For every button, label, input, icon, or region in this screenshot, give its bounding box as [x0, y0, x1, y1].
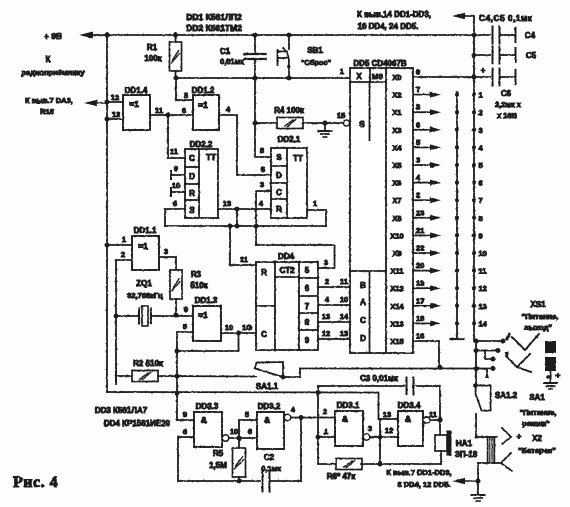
junction out10 [236, 331, 241, 336]
resistor R2 [115, 369, 117, 384]
svg-text:=1: =1 [198, 310, 208, 320]
wire DD3.4 out pin11 [423, 417, 430, 424]
junction bus DD1.1 pin1 [105, 243, 110, 248]
ground XS1 [544, 382, 557, 384]
svg-text:X12: X12 [390, 284, 403, 293]
svg-text:XS1: XS1 [530, 300, 546, 309]
svg-text:DD1.2: DD1.2 [192, 86, 215, 95]
svg-text:1: 1 [122, 235, 126, 244]
svg-text:6: 6 [173, 199, 177, 208]
junction SB1 top [287, 33, 292, 38]
contact 6 [472, 181, 476, 185]
junction DD1.4out/DD2.2 pin11 [166, 113, 171, 118]
contact 11 [472, 269, 476, 273]
svg-text:DD3.2: DD3.2 [258, 402, 281, 411]
wire DD3.3 out pin10 [222, 435, 229, 442]
svg-text:SB1: SB1 [307, 46, 323, 55]
svg-text:R: R [276, 205, 282, 214]
svg-text:9: 9 [416, 68, 420, 77]
svg-text:9: 9 [184, 305, 188, 314]
svg-text:S: S [276, 153, 282, 162]
arrow pin14 supply [459, 15, 472, 17]
wire DD3.3 pin9 [177, 419, 194, 421]
svg-text:1: 1 [313, 199, 317, 208]
ground at R4 [324, 123, 326, 131]
ground bottom [477, 481, 479, 494]
svg-text:К выв.7 DA3,: К выв.7 DA3, [25, 96, 73, 105]
junction R1 top [173, 33, 178, 38]
svg-text:"Батарея": "Батарея" [518, 446, 556, 455]
wire bottom rail R5-C2 [178, 480, 260, 482]
svg-text:х 16В: х 16В [497, 111, 518, 120]
wire DD4 pin10 C input [255, 332, 257, 334]
wire DD1.4 pin13 [107, 118, 123, 120]
capacitor C3 [406, 378, 408, 395]
svg-text:13: 13 [112, 110, 120, 119]
op-gate DD1.2 [193, 95, 219, 130]
svg-text:R4 100к: R4 100к [274, 106, 305, 115]
wire to DD3.2 pin5 [239, 420, 257, 438]
svg-text:11: 11 [170, 147, 178, 156]
bus line B contacts common [456, 92, 458, 338]
junction bus pin12 [105, 100, 110, 105]
svg-text:13: 13 [322, 312, 330, 321]
connector XS1 body [545, 341, 556, 353]
svg-text:12: 12 [385, 426, 393, 435]
svg-text:16: 16 [416, 332, 424, 341]
wire to DD1.2 pin5 [176, 78, 193, 100]
junction L1 end [491, 366, 496, 371]
svg-text:6: 6 [416, 120, 420, 129]
contact 13 [472, 304, 476, 308]
junction out10/R5 [237, 436, 242, 441]
svg-text:CT2: CT2 [279, 266, 295, 275]
svg-text:2: 2 [323, 407, 327, 416]
svg-text:0,01мк: 0,01мк [220, 57, 244, 66]
wire C3 branch [318, 385, 404, 387]
svg-text:выход": выход" [524, 323, 552, 332]
junction SA1.1 pivot [280, 375, 285, 380]
svg-text:23: 23 [416, 208, 424, 217]
wire SA1.2 to X2 [476, 414, 497, 437]
junction rail right [472, 33, 477, 38]
arrow to pins 7 [459, 480, 478, 482]
svg-text:К выв.7 DD1-DD3,: К выв.7 DD1-DD3, [386, 468, 451, 477]
resistor R4 [255, 122, 277, 124]
plug pin X2 bottom [478, 462, 500, 464]
resistor R5 [238, 438, 240, 448]
junction R4 right [323, 121, 328, 126]
svg-text:"Питание,: "Питание, [522, 312, 559, 321]
svg-text:0,1мк: 0,1мк [261, 464, 281, 473]
junction R1 bottom [174, 76, 179, 81]
contact 12 [472, 286, 476, 290]
svg-text:ZQ1: ZQ1 [136, 279, 152, 288]
svg-text:8: 8 [416, 103, 420, 112]
svg-text:14: 14 [340, 312, 349, 321]
junction C1 top [253, 33, 258, 38]
svg-text:X6: X6 [392, 179, 401, 188]
svg-text:К: К [46, 55, 51, 64]
wire L2 from bus [107, 392, 398, 419]
wire feedback down [177, 333, 239, 351]
jack contact 1 [512, 334, 539, 350]
svg-text:19: 19 [416, 279, 424, 288]
svg-text:X3: X3 [392, 126, 401, 135]
svg-text:S: S [359, 119, 365, 129]
wire W1 bottom of flip-flops [165, 225, 326, 227]
svg-text:20: 20 [416, 261, 424, 270]
svg-text:SA1.1: SA1.1 [256, 382, 279, 391]
wire DD3.2 out pin4 [284, 414, 291, 421]
junction R5 bottom [237, 479, 242, 484]
switch SA1.2 lever [476, 386, 491, 411]
contact 3 [472, 128, 476, 132]
bus line C numbered [473, 35, 475, 341]
svg-text:DD2.1: DD2.1 [278, 135, 301, 144]
svg-text:радиоприёмнику: радиоприёмнику [21, 68, 85, 77]
counter DD4 CT2 [256, 262, 318, 350]
svg-text:8: 8 [260, 146, 264, 155]
bus line B end bar [451, 338, 464, 340]
wire DD4 outC pin13 to DD5 C pin14 [318, 321, 350, 323]
junction crystal right [174, 313, 179, 318]
svg-text:7: 7 [479, 196, 483, 205]
svg-text:X10: X10 [390, 231, 403, 240]
svg-text:8: 8 [305, 318, 310, 327]
wire DD4 out5 to W2 [317, 267, 319, 269]
svg-text:32,768кГц: 32,768кГц [127, 291, 163, 300]
svg-text:DD3.4: DD3.4 [398, 401, 421, 410]
op-gate DD1.3 [193, 306, 221, 341]
wire DD1.1 pin1 [107, 244, 132, 246]
op-gate DD1.4 [123, 95, 150, 130]
svg-text:=1: =1 [198, 100, 208, 110]
svg-text:14: 14 [479, 319, 488, 328]
svg-text:C: C [189, 154, 195, 163]
resistor R1 [175, 35, 177, 42]
wire X15 pin16 to SA1.1 line [413, 341, 439, 368]
svg-text:D: D [360, 334, 366, 343]
svg-text:12: 12 [322, 329, 330, 338]
svg-text:22: 22 [416, 244, 424, 253]
svg-text:X: X [356, 72, 362, 81]
svg-text:7: 7 [416, 85, 420, 94]
nand DD3.3 [194, 412, 222, 447]
stub DD2.2 pin9 [171, 174, 185, 176]
junction pin1 [316, 435, 321, 440]
svg-text:X5: X5 [392, 161, 401, 170]
svg-text:3: 3 [416, 156, 420, 165]
wire DD2.2 out pin13 [218, 208, 271, 210]
svg-text:11: 11 [240, 255, 248, 264]
wire DD4 outA pin4 to DD5 A pin10 [318, 304, 350, 306]
svg-text:DD3.1: DD3.1 [337, 401, 360, 410]
svg-text:C4: C4 [525, 31, 536, 40]
contact 10 [472, 251, 476, 255]
svg-text:3: 3 [260, 180, 264, 189]
svg-text:X2: X2 [392, 91, 401, 100]
junction out13 [235, 207, 240, 212]
contact 4 [472, 145, 476, 149]
svg-text:5: 5 [184, 91, 188, 100]
svg-text:7: 7 [305, 302, 310, 311]
op-gate DD1.1 [132, 236, 159, 270]
wire DD2.1 pin8 S from C1 [255, 156, 271, 158]
svg-text:DD1.3: DD1.3 [195, 296, 218, 305]
svg-text:R: R [261, 268, 267, 277]
svg-text:R1: R1 [147, 43, 158, 52]
svg-text:17: 17 [416, 296, 424, 305]
svg-text:12: 12 [479, 284, 487, 293]
svg-text:1: 1 [324, 427, 328, 436]
crystal ZQ1 [116, 315, 138, 317]
wire DD1.2 out pin4 [219, 115, 271, 175]
contact 2 [472, 110, 476, 114]
arrow to DA3/R16 [91, 102, 107, 104]
resistor R6 [336, 459, 362, 470]
junction SA1.2/L1 [474, 366, 479, 371]
svg-text:&: & [342, 414, 348, 424]
svg-text:DD3 К561ЛА7: DD3 К561ЛА7 [95, 406, 148, 415]
capacitor C2 [262, 471, 264, 492]
switch SA1.1 lever [255, 362, 283, 377]
svg-text:C5: C5 [526, 51, 537, 60]
wire L1 SA1.1 common [300, 368, 493, 370]
wire C3 right to out11 node [416, 386, 440, 436]
plug arrow row1 [505, 332, 511, 341]
svg-text:DD3.3: DD3.3 [196, 402, 219, 411]
flip-flop DD2.2 [185, 149, 218, 218]
wire DD1.1 out pin3 to R3 [159, 257, 176, 270]
svg-text:ЗП-18: ЗП-18 [455, 450, 478, 459]
svg-text:R6* 47к: R6* 47к [327, 472, 356, 481]
capacitor C6 electrolytic [474, 76, 490, 78]
wire SB1 row y78 [176, 77, 351, 79]
junction SB1 bottom [287, 76, 292, 81]
junction bus/rail [105, 33, 110, 38]
svg-text:C4,C5 0,1мк: C4,C5 0,1мк [479, 13, 533, 23]
svg-text:X15: X15 [390, 337, 403, 346]
svg-text:6: 6 [305, 284, 310, 293]
svg-text:X2: X2 [532, 434, 542, 443]
svg-text:9: 9 [174, 164, 178, 173]
svg-text:DD5 CD4067B: DD5 CD4067B [353, 59, 407, 68]
plug arrow row2 [505, 352, 510, 359]
svg-text:15: 15 [337, 111, 345, 120]
svg-text:+: + [517, 432, 522, 441]
wire SA1.2 column [475, 341, 477, 386]
svg-text:5: 5 [479, 161, 483, 170]
svg-text:11: 11 [429, 410, 437, 419]
wire DD2.2 pin6 S [165, 209, 185, 226]
svg-text:НА1: НА1 [456, 439, 473, 448]
buzzer HA1 [439, 435, 441, 436]
svg-text:3: 3 [368, 424, 372, 433]
svg-text:13: 13 [383, 410, 391, 419]
svg-text:D: D [276, 171, 282, 180]
wire DD3.4 vertical node [379, 419, 381, 464]
wire DD2.1 pin3 C [256, 191, 271, 245]
svg-text:11: 11 [479, 267, 487, 276]
svg-text:=1: =1 [129, 99, 139, 109]
wire W2 to DD4 pin3 [256, 245, 335, 268]
wire X2 to ground node [477, 463, 479, 481]
capacitor C4 [474, 34, 490, 36]
contact 5 [472, 163, 476, 167]
svg-text:1: 1 [340, 67, 344, 76]
svg-text:3: 3 [324, 258, 328, 267]
junction L1/X15 [438, 365, 443, 370]
svg-text:11: 11 [155, 106, 163, 115]
svg-text:X7: X7 [392, 196, 401, 205]
wire SA1.1 pivot to L1 [283, 369, 300, 378]
svg-text:11: 11 [340, 277, 348, 286]
arrow to +9V [79, 32, 93, 39]
svg-text:6: 6 [248, 427, 252, 436]
junction W1 R [228, 224, 233, 229]
svg-text:D: D [189, 172, 195, 181]
svg-text:10: 10 [225, 323, 233, 332]
junction out4 down [299, 415, 304, 420]
svg-text:C: C [261, 330, 267, 339]
junction feedback [175, 349, 180, 354]
wire DD1.3 out pin10 [221, 332, 256, 334]
wire DD3.1 out pin3 [363, 434, 370, 441]
svg-text:13: 13 [479, 302, 487, 311]
flip-flop DD2.1 [271, 148, 307, 218]
svg-text:C3 0,01мк: C3 0,01мк [360, 374, 399, 383]
junction out11 [438, 418, 443, 423]
svg-text:MS: MS [372, 72, 383, 81]
svg-text:2: 2 [325, 277, 329, 286]
junction C6 [472, 75, 477, 80]
svg-text:3: 3 [164, 247, 168, 256]
wire left bus vertical [106, 35, 108, 392]
contact 7 [472, 198, 476, 202]
svg-text:13: 13 [223, 199, 231, 208]
svg-text:К выв.14 DD1-DD3,: К выв.14 DD1-DD3, [357, 10, 431, 19]
svg-text:8 DD4, 12 DD5.: 8 DD4, 12 DD5. [398, 480, 451, 489]
svg-text:C: C [276, 188, 282, 197]
svg-text:&: & [405, 414, 411, 424]
svg-text:5: 5 [245, 410, 249, 419]
svg-text:2: 2 [479, 108, 483, 117]
junction W1 a [235, 224, 240, 229]
svg-text:+: + [556, 371, 561, 380]
junction bus pin13 [105, 117, 110, 122]
svg-text:B: B [360, 281, 366, 290]
svg-text:Рис. 4: Рис. 4 [13, 474, 58, 491]
wire DD3.1 pin1 [318, 436, 335, 438]
node +9V supply rail [84, 34, 474, 36]
plug arrow L1 [485, 371, 489, 379]
svg-text:R5: R5 [213, 449, 224, 458]
svg-text:R: R [189, 189, 195, 198]
junction bottom node [476, 479, 481, 484]
svg-text:&: & [264, 415, 270, 425]
svg-text:TT: TT [206, 153, 216, 162]
wire junction to W1 [236, 209, 238, 226]
svg-text:16 DD4, 24 DD5.: 16 DD4, 24 DD5. [358, 22, 419, 31]
junction node R2 [175, 374, 180, 379]
svg-text:C2: C2 [264, 453, 275, 462]
junction W1 b [254, 224, 259, 229]
svg-text:C: C [360, 316, 366, 325]
svg-text:SA1: SA1 [529, 393, 545, 402]
svg-text:6: 6 [479, 179, 483, 188]
svg-text:5: 5 [261, 165, 265, 174]
svg-text:X13: X13 [390, 319, 403, 328]
contact 1 [472, 93, 476, 97]
wire DD1.1 pin2 [116, 260, 132, 384]
svg-text:"Сброс": "Сброс" [301, 58, 332, 67]
wire DD3.3 pin8 [178, 437, 194, 481]
svg-text:X8: X8 [392, 214, 401, 223]
svg-text:3: 3 [479, 126, 483, 135]
junction out3/DD3.4 node [378, 435, 383, 440]
wire pin8 node down to R2/L2 [176, 351, 178, 420]
wire XS1 row1 [476, 340, 503, 342]
wire DD1.4 out pin11 to DD1.2 pin6 [150, 114, 193, 116]
svg-text:2,2мк х: 2,2мк х [495, 100, 522, 109]
svg-text:TT: TT [293, 154, 303, 163]
svg-text:10: 10 [172, 181, 180, 190]
svg-text:DD4 КР1561ИЕ20: DD4 КР1561ИЕ20 [104, 419, 171, 428]
pushbutton SB1 [288, 35, 290, 49]
svg-text:9: 9 [183, 410, 187, 419]
nand DD3.1 [335, 411, 363, 446]
svg-text:2: 2 [416, 191, 420, 200]
svg-text:9: 9 [305, 336, 310, 345]
wire DD4 outB pin2 to DD5 B pin11 [318, 286, 350, 288]
svg-text:2: 2 [121, 250, 125, 259]
wire XS1 row2 [476, 350, 498, 352]
junction SA1.2/row2 [474, 348, 479, 353]
svg-text:X9: X9 [392, 249, 401, 258]
junction C1 at y78 [253, 76, 258, 81]
svg-text:1G: 1G [242, 323, 252, 332]
wire DD1.4 pin12 [107, 101, 123, 103]
svg-text:=1: =1 [138, 241, 148, 251]
svg-text:13: 13 [340, 329, 348, 338]
divider above BACD [350, 270, 386, 272]
wire DD4 outD pin12 to DD5 D pin13 [318, 338, 350, 340]
wire DD2.1 out pin1 [307, 210, 326, 226]
contact 14 [472, 321, 476, 325]
svg-text:10: 10 [479, 249, 487, 258]
nand DD3.2 [257, 412, 284, 449]
connector X2 body [488, 437, 495, 463]
svg-text:C6: C6 [501, 89, 512, 98]
jack contact 2 [506, 354, 530, 367]
plug pin X2 top [502, 428, 511, 444]
nand DD3.4 [398, 411, 423, 446]
junction C5 [472, 53, 477, 58]
svg-text:R16: R16 [40, 107, 54, 116]
svg-text:DD4: DD4 [278, 252, 295, 261]
junction node L2 [175, 391, 180, 396]
svg-text:&: & [201, 415, 207, 425]
junction crystal left [114, 314, 119, 319]
resistor R3 [170, 270, 182, 299]
stub row3 [485, 351, 493, 360]
svg-text:X0: X0 [392, 73, 401, 82]
svg-text:8: 8 [479, 214, 483, 223]
wire rail R6 to HA1 [380, 463, 441, 465]
svg-text:10: 10 [340, 295, 348, 304]
svg-text:R3: R3 [191, 270, 202, 279]
